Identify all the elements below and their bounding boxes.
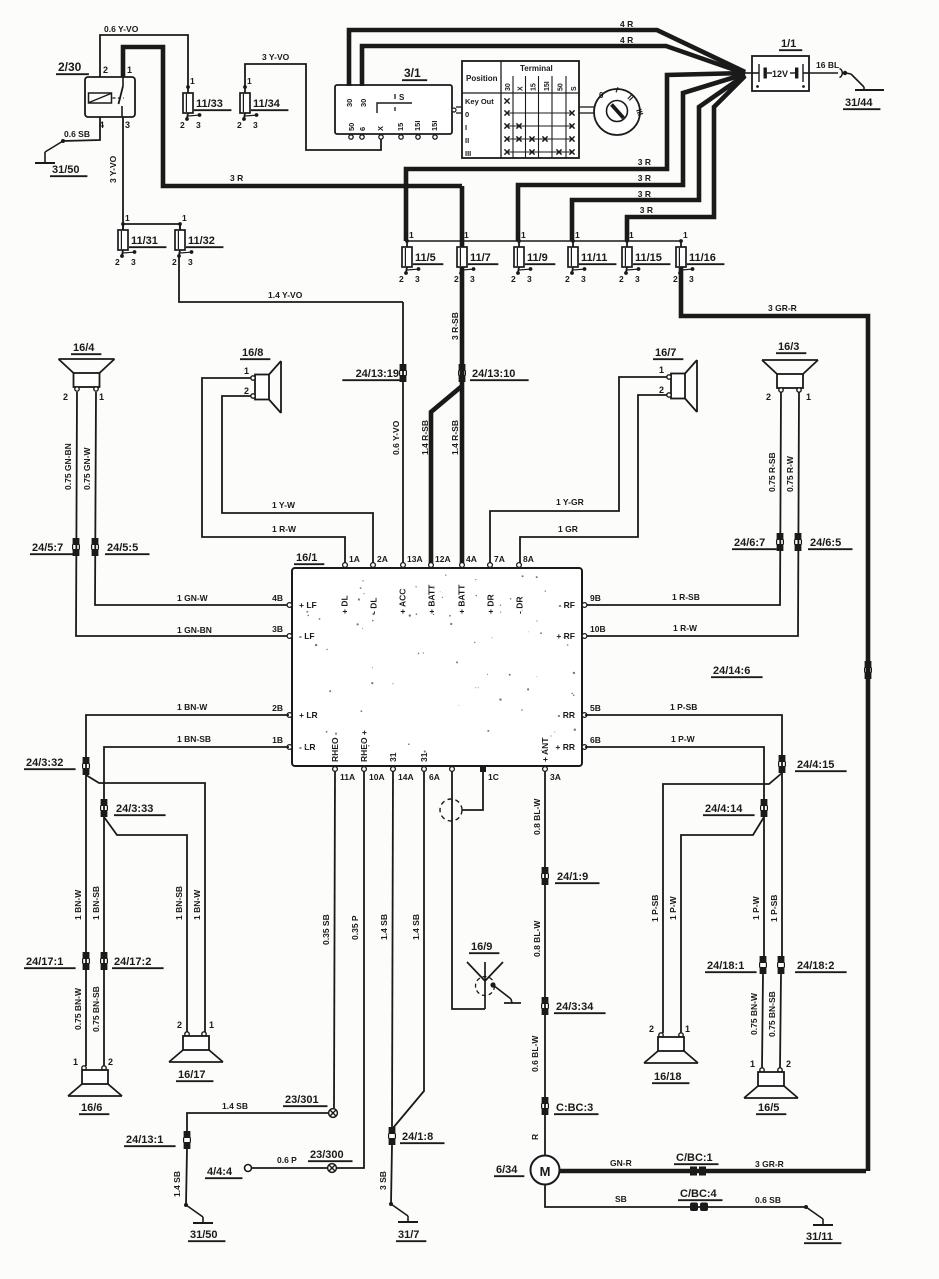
- svg-text:0.75 BN-SB: 0.75 BN-SB: [91, 986, 101, 1032]
- wire 0.75 GN-W / 1 GN-W speaker 16/4 pin1 to radio 4B: [82, 392, 289, 605]
- svg-text:1 P-W: 1 P-W: [671, 734, 696, 744]
- svg-text:2: 2: [115, 257, 120, 267]
- svg-text:11/31: 11/31: [131, 235, 158, 247]
- svg-text:2: 2: [659, 385, 664, 395]
- svg-text:30: 30: [345, 99, 354, 107]
- svg-text:11/33: 11/33: [196, 98, 223, 110]
- svg-text:24/6:7: 24/6:7: [734, 537, 765, 549]
- svg-text:1 BN-SB: 1 BN-SB: [174, 886, 184, 920]
- wire 1 GR speaker 16/7 pin2 to radio 8A: [520, 395, 667, 563]
- svg-text:11/16: 11/16: [689, 252, 716, 264]
- svg-text:2: 2: [399, 274, 404, 284]
- svg-text:14A: 14A: [398, 772, 414, 782]
- svg-text:16/5: 16/5: [758, 1102, 779, 1114]
- svg-text:15: 15: [396, 123, 405, 131]
- svg-text:2: 2: [108, 1057, 113, 1067]
- radio right pins 9B 10B 5B 6B: [555, 593, 605, 752]
- node dashed circle at 1C join: [440, 799, 462, 821]
- wire relay feed down to fuse 11/7: [460, 186, 465, 247]
- svg-text:3: 3: [131, 257, 136, 267]
- svg-text:1.4 SB: 1.4 SB: [172, 1171, 182, 1197]
- wire 0.75 BN-W to speaker 16/5 pin1: [749, 974, 763, 1068]
- svg-text:3 R: 3 R: [230, 173, 243, 183]
- svg-text:24/5:7: 24/5:7: [32, 542, 63, 554]
- wire 0.35 P radio 10A to junction 23/300: [337, 771, 364, 1168]
- svg-text:10A: 10A: [369, 772, 385, 782]
- svg-text:24/18:1: 24/18:1: [707, 960, 744, 972]
- svg-text:15: 15: [531, 83, 538, 91]
- fuse 11/34: [237, 76, 288, 130]
- svg-text:30: 30: [359, 99, 368, 107]
- svg-text:31/44: 31/44: [845, 97, 873, 109]
- svg-text:4A: 4A: [466, 554, 477, 564]
- wire branch 1 BN-SB to speaker 16/17 pin2: [104, 817, 187, 1032]
- svg-text:31/7: 31/7: [398, 1229, 419, 1241]
- battery 1/1: [745, 38, 809, 91]
- svg-text:1.4 R-SB: 1.4 R-SB: [450, 420, 460, 455]
- svg-text:6A: 6A: [429, 772, 440, 782]
- svg-text:2: 2: [766, 392, 771, 402]
- antenna 16/9: [467, 941, 521, 1009]
- svg-text:0: 0: [465, 110, 469, 119]
- svg-text:1: 1: [659, 365, 664, 375]
- svg-text:31: 31: [419, 752, 429, 762]
- svg-text:3: 3: [188, 257, 193, 267]
- svg-text:6: 6: [358, 127, 367, 131]
- wire relay pin2 to fuse 11/33 (0.6 Y-VO): [100, 24, 188, 87]
- wire radio antenna output to antenna 16/9: [452, 771, 485, 1009]
- svg-text:0.6 Y-VO: 0.6 Y-VO: [391, 420, 401, 455]
- svg-text:0.6 SB: 0.6 SB: [64, 129, 90, 139]
- svg-text:3 R: 3 R: [638, 157, 651, 167]
- svg-text:16/1: 16/1: [296, 552, 317, 564]
- svg-text:9B: 9B: [590, 593, 601, 603]
- svg-text:24/3:33: 24/3:33: [116, 803, 153, 815]
- svg-text:1: 1: [125, 213, 130, 223]
- svg-text:GN-R: GN-R: [610, 1158, 632, 1168]
- svg-text:24/18:2: 24/18:2: [797, 960, 834, 972]
- svg-text:3 R-SB: 3 R-SB: [450, 312, 460, 340]
- wire 4 R battery to ignition 30 (lower): [362, 35, 745, 86]
- svg-text:1.4 SB: 1.4 SB: [379, 914, 389, 940]
- speaker 16/6: [68, 1057, 122, 1114]
- speaker 16/5: [744, 1059, 798, 1114]
- svg-text:0.35 P: 0.35 P: [350, 915, 360, 940]
- wire 4 R battery to ignition 30 (upper): [349, 19, 745, 86]
- wire 1 BN-SB radio 1B to 24/3:33 and speakers: [91, 734, 289, 1066]
- fuse 11/5: [399, 230, 443, 284]
- svg-text:1 P-SB: 1 P-SB: [650, 895, 660, 922]
- svg-text:24/4:14: 24/4:14: [705, 803, 743, 815]
- svg-text:4/4:4: 4/4:4: [207, 1166, 233, 1178]
- wire 0.75 GN-BN / 1 GN-BN speaker 16/4 pin2 to radio 3B: [63, 392, 289, 636]
- svg-text:2: 2: [619, 274, 624, 284]
- svg-text:III: III: [465, 149, 471, 158]
- svg-text:11/9: 11/9: [527, 252, 548, 264]
- svg-text:3: 3: [470, 274, 475, 284]
- svg-text:24/5:5: 24/5:5: [107, 542, 138, 554]
- connector 24/13:19: [342, 364, 406, 382]
- svg-text:C:BC:3: C:BC:3: [556, 1102, 593, 1114]
- svg-text:- RR: - RR: [558, 710, 575, 720]
- svg-text:1 Y-W: 1 Y-W: [272, 500, 296, 510]
- junction 23/300: [308, 1149, 353, 1172]
- wire 1.4 R-SB branch to radio 12A: [420, 386, 462, 563]
- fuse 11/9: [511, 230, 555, 284]
- svg-text:11/15: 11/15: [635, 252, 662, 264]
- svg-text:2: 2: [172, 257, 177, 267]
- svg-text:24/17:2: 24/17:2: [114, 956, 151, 968]
- svg-text:2: 2: [649, 1024, 654, 1034]
- speaker 16/4: [59, 342, 115, 402]
- svg-text:- LF: - LF: [299, 631, 315, 641]
- wire 3 R battery to fuse 11/5: [406, 73, 745, 241]
- svg-text:1.4 SB: 1.4 SB: [411, 914, 421, 940]
- svg-text:0.75 R-W: 0.75 R-W: [785, 455, 795, 492]
- svg-text:+ ACC: + ACC: [398, 589, 408, 614]
- svg-text:16/7: 16/7: [655, 347, 676, 359]
- svg-text:16/6: 16/6: [81, 1102, 102, 1114]
- svg-text:0.75 BN-SB: 0.75 BN-SB: [767, 991, 777, 1037]
- svg-text:3 R: 3 R: [640, 205, 653, 215]
- svg-text:3: 3: [527, 274, 532, 284]
- wire 1 R-W speaker 16/8 pin1 to radio 1A: [202, 378, 345, 563]
- svg-text:RHEO +: RHEO +: [359, 730, 369, 762]
- wire 3 GR-R fuse 11/16 down right side: [681, 267, 868, 1171]
- svg-text:+ BATT: + BATT: [457, 584, 467, 614]
- svg-text:3: 3: [253, 120, 258, 130]
- svg-text:1 GN-BN: 1 GN-BN: [177, 625, 212, 635]
- svg-text:C/BC:1: C/BC:1: [676, 1152, 713, 1164]
- wire 0.35 SB radio 11A to junction 23/301: [321, 771, 335, 1108]
- wire 1.4 SB to ground: [172, 1149, 187, 1205]
- svg-text:1 R-SB: 1 R-SB: [672, 592, 700, 602]
- svg-text:1: 1: [575, 230, 580, 240]
- connector C:BC:3: [542, 1097, 599, 1115]
- wire 3 R battery to fuse 11/15: [627, 76, 745, 241]
- speaker 16/18: [644, 1024, 698, 1083]
- svg-text:I: I: [465, 123, 467, 132]
- svg-text:2: 2: [244, 386, 249, 396]
- speaker 16/8: [240, 347, 281, 413]
- svg-text:2/30: 2/30: [58, 60, 82, 74]
- svg-text:11/11: 11/11: [581, 252, 607, 264]
- ground 31/7: [389, 1202, 426, 1241]
- svg-text:3: 3: [635, 274, 640, 284]
- wire fuse top rail: [407, 240, 681, 242]
- svg-text:1: 1: [464, 230, 469, 240]
- svg-text:3 GR-R: 3 GR-R: [755, 1159, 784, 1169]
- wire 1.4 SB junction to connector 24/13:1: [187, 1101, 328, 1131]
- svg-text:+ RR: + RR: [555, 742, 575, 752]
- svg-text:4 R: 4 R: [620, 35, 633, 45]
- wire 3 SB to ground: [378, 1145, 392, 1204]
- svg-text:3: 3: [689, 274, 694, 284]
- connector 24/17:1: [24, 952, 89, 970]
- wire 1 BN-W radio 2B to 24/3:32 and speakers: [73, 702, 289, 1066]
- svg-text:5B: 5B: [590, 703, 601, 713]
- wire 0.75 BN-SB to speaker 16/5 pin2: [767, 974, 781, 1068]
- svg-text:Key Out: Key Out: [465, 97, 494, 106]
- radio bottom pins 11A 10A 14A 6A 1C 3A: [330, 730, 561, 782]
- svg-text:RHEO -: RHEO -: [330, 732, 340, 762]
- ground 31/44: [843, 74, 884, 109]
- wire branch 1 P-SB to speaker 16/18 pin2: [650, 773, 782, 1033]
- speaker 16/3: [762, 341, 818, 402]
- connector 24/17:2: [101, 952, 164, 970]
- svg-text:8A: 8A: [523, 554, 534, 564]
- svg-text:11/7: 11/7: [470, 252, 491, 264]
- svg-text:16/17: 16/17: [178, 1069, 206, 1081]
- svg-text:R: R: [530, 1134, 540, 1140]
- svg-text:1 BN-W: 1 BN-W: [177, 702, 208, 712]
- svg-text:11A: 11A: [340, 772, 355, 782]
- fuse 11/33: [180, 76, 231, 130]
- svg-text:2: 2: [565, 274, 570, 284]
- wire 16 BL battery to ground: [809, 60, 851, 78]
- svg-text:0.75 GN-W: 0.75 GN-W: [82, 447, 92, 490]
- svg-text:31/11: 31/11: [806, 1231, 833, 1243]
- wire 3 R battery to fuse 11/9: [518, 74, 745, 241]
- fuse 11/31: [115, 213, 166, 267]
- svg-text:1 P-SB: 1 P-SB: [670, 702, 697, 712]
- wire relay pin3 3 Y-VO down to fuses 11/31 11/32: [108, 117, 180, 230]
- svg-text:12A: 12A: [435, 554, 451, 564]
- svg-text:1: 1: [629, 230, 634, 240]
- svg-text:1.4 SB: 1.4 SB: [222, 1101, 248, 1111]
- svg-text:24/13:10: 24/13:10: [472, 368, 515, 380]
- svg-text:1: 1: [190, 76, 195, 86]
- ground 31/50 top: [35, 139, 87, 176]
- svg-text:1 GN-W: 1 GN-W: [177, 593, 209, 603]
- connector C/BC:1: [674, 1152, 719, 1176]
- svg-text:1: 1: [409, 230, 414, 240]
- connector 24/14:6: [711, 661, 871, 679]
- svg-text:50: 50: [347, 123, 356, 131]
- svg-text:16/8: 16/8: [242, 347, 263, 359]
- svg-text:1 P-W: 1 P-W: [668, 895, 678, 920]
- svg-text:3 R: 3 R: [638, 189, 651, 199]
- connector 24/4:14: [703, 799, 767, 817]
- svg-text:16/3: 16/3: [778, 341, 799, 353]
- svg-text:0.75 BN-W: 0.75 BN-W: [73, 987, 83, 1030]
- svg-text:24/3:32: 24/3:32: [26, 757, 63, 769]
- svg-text:10B: 10B: [590, 624, 606, 634]
- connector 24/5:5: [92, 538, 150, 556]
- svg-text:- DL: - DL: [369, 597, 379, 614]
- svg-text:1 GR: 1 GR: [558, 524, 578, 534]
- wire 1.4 Y-VO from 11/32 to radio 13A riser: [179, 256, 403, 302]
- svg-text:2B: 2B: [272, 703, 283, 713]
- ignition position/terminal table: [462, 61, 594, 158]
- svg-text:11/32: 11/32: [188, 235, 215, 247]
- relay 2/30: [56, 60, 135, 130]
- svg-text:3B: 3B: [272, 624, 283, 634]
- svg-text:0.6 P: 0.6 P: [277, 1155, 297, 1165]
- connector 24/3:33: [101, 799, 166, 817]
- fuse 11/7: [454, 230, 498, 284]
- connector 24/1:8: [389, 1127, 445, 1145]
- radio top pins 1A 2A 13A 12A 4A 7A 8A: [340, 554, 534, 614]
- wire 3 R battery to fuse 11/11: [572, 75, 745, 241]
- svg-text:Terminal: Terminal: [520, 64, 553, 73]
- svg-text:S: S: [571, 86, 578, 91]
- svg-text:12V: 12V: [772, 69, 788, 79]
- svg-text:1 P-SB: 1 P-SB: [769, 895, 779, 922]
- svg-text:1: 1: [209, 1020, 214, 1030]
- svg-text:+ ANT: + ANT: [540, 737, 550, 762]
- svg-text:2: 2: [180, 120, 185, 130]
- fuse 11/32: [172, 213, 223, 267]
- svg-text:1: 1: [683, 230, 688, 240]
- svg-text:3: 3: [196, 120, 201, 130]
- connector 24/18:1: [705, 956, 766, 974]
- svg-text:2: 2: [237, 120, 242, 130]
- svg-text:16/18: 16/18: [654, 1071, 682, 1083]
- svg-text:+ LR: + LR: [299, 710, 318, 720]
- radio unit 16/1: [292, 552, 582, 766]
- ground 31/11: [804, 1205, 841, 1243]
- svg-text:1: 1: [73, 1057, 78, 1067]
- svg-text:24/14:6: 24/14:6: [713, 665, 750, 677]
- svg-text:3: 3: [125, 120, 130, 130]
- svg-text:1 BN-W: 1 BN-W: [192, 889, 202, 920]
- svg-text:3A: 3A: [550, 772, 561, 782]
- svg-text:16/9: 16/9: [471, 941, 492, 953]
- fuse 11/16: [673, 230, 724, 284]
- svg-text:0.75 R-SB: 0.75 R-SB: [767, 452, 777, 492]
- ground 31/50 bottom: [184, 1203, 225, 1241]
- svg-text:0.75 BN-W: 0.75 BN-W: [749, 992, 759, 1035]
- svg-text:1A: 1A: [349, 554, 360, 564]
- svg-text:7A: 7A: [494, 554, 505, 564]
- svg-text:1.4 R-SB: 1.4 R-SB: [420, 420, 430, 455]
- svg-text:1: 1: [99, 392, 104, 402]
- svg-text:X: X: [518, 86, 525, 91]
- svg-text:24/4:15: 24/4:15: [797, 759, 834, 771]
- svg-text:0.6 SB: 0.6 SB: [755, 1195, 781, 1205]
- svg-text:1B: 1B: [272, 735, 283, 745]
- svg-text:3 R: 3 R: [638, 173, 651, 183]
- connector 24/1:9: [542, 867, 600, 885]
- svg-text:4B: 4B: [272, 593, 283, 603]
- wire 0.75 R-SB / 1 R-SB speaker 16/3 pin2 to radio 9B: [585, 392, 781, 605]
- wire 1 P-W radio 6B to 24/4:14 and speakers: [585, 734, 764, 956]
- svg-text:0.6 BL-W: 0.6 BL-W: [530, 1035, 540, 1072]
- svg-text:X: X: [376, 126, 385, 131]
- connector 4/4:4 and wire 0.6 P: [205, 1155, 328, 1178]
- svg-text:2: 2: [177, 1020, 182, 1030]
- wire 1 Y-GR speaker 16/7 pin1 to radio 7A: [490, 377, 667, 563]
- svg-text:1: 1: [244, 366, 249, 376]
- svg-text:+ BATT: + BATT: [427, 584, 437, 614]
- svg-text:0.6 Y-VO: 0.6 Y-VO: [104, 24, 139, 34]
- ignition switch 3/1: [335, 66, 462, 139]
- svg-text:3: 3: [415, 274, 420, 284]
- ignition key symbol: [594, 85, 645, 135]
- svg-text:4 R: 4 R: [620, 19, 633, 29]
- connector 24/3:34: [542, 997, 606, 1015]
- svg-text:3: 3: [581, 274, 586, 284]
- wire 1 P-SB radio 5B to 24/4:15 and speakers: [585, 702, 782, 956]
- svg-text:+ RF: + RF: [556, 631, 575, 641]
- svg-text:23/301: 23/301: [285, 1094, 319, 1106]
- svg-text:M: M: [540, 1164, 551, 1179]
- svg-text:1 BN-W: 1 BN-W: [73, 889, 83, 920]
- svg-text:2: 2: [673, 274, 678, 284]
- connector 24/6:7: [732, 533, 783, 551]
- svg-text:2A: 2A: [377, 554, 388, 564]
- svg-text:0.35 SB: 0.35 SB: [321, 914, 331, 945]
- antenna motor 6/34: [494, 1156, 560, 1185]
- svg-text:+ LF: + LF: [299, 600, 317, 610]
- radio scan speckles: [304, 574, 576, 752]
- svg-text:15I: 15I: [413, 121, 422, 131]
- svg-text:1: 1: [247, 76, 252, 86]
- svg-text:31/50: 31/50: [190, 1229, 218, 1241]
- fuse 11/11: [565, 230, 616, 284]
- wire 3 R-SB / 1.4 R-SB fuse 11/7 to radio 4A: [450, 267, 462, 563]
- wire 3 Y-VO from 11/34 to ignition switch X terminal: [245, 52, 381, 150]
- wire relay pin4 0.6 SB to ground: [63, 117, 100, 141]
- svg-text:16 BL: 16 BL: [816, 60, 839, 70]
- connector 24/6:5: [795, 533, 853, 551]
- svg-text:- LR: - LR: [299, 742, 316, 752]
- svg-text:1: 1: [750, 1059, 755, 1069]
- svg-text:1 R-W: 1 R-W: [272, 524, 297, 534]
- wire 1 Y-W speaker 16/8 pin2 to radio 2A: [222, 396, 373, 563]
- svg-text:6B: 6B: [590, 735, 601, 745]
- svg-text:11/34: 11/34: [253, 98, 281, 110]
- connector C/BC:4: [678, 1188, 723, 1211]
- svg-text:1 R-W: 1 R-W: [673, 623, 698, 633]
- svg-text:- DR: - DR: [515, 597, 525, 614]
- svg-text:1 BN-SB: 1 BN-SB: [177, 734, 211, 744]
- svg-text:0: 0: [599, 91, 604, 100]
- junction 23/301: [283, 1094, 337, 1117]
- svg-text:15I: 15I: [430, 121, 439, 131]
- connector 24/13:1: [124, 1131, 190, 1149]
- svg-text:+ DR: + DR: [486, 594, 496, 614]
- svg-text:23/300: 23/300: [310, 1149, 344, 1161]
- svg-text:- RF: - RF: [558, 600, 575, 610]
- svg-text:15I: 15I: [544, 81, 551, 91]
- connector 24/4:15: [779, 755, 847, 773]
- svg-text:24/17:1: 24/17:1: [26, 956, 63, 968]
- svg-text:2: 2: [511, 274, 516, 284]
- svg-text:24/6:5: 24/6:5: [810, 537, 841, 549]
- svg-text:3 Y-VO: 3 Y-VO: [108, 155, 118, 183]
- wire GN-R / 3 GR-R motor to right side: [560, 1158, 867, 1171]
- wire 0.6 Y-VO riser to radio 13A: [391, 302, 403, 563]
- svg-text:1C: 1C: [488, 772, 499, 782]
- svg-text:2: 2: [786, 1059, 791, 1069]
- svg-text:SB: SB: [615, 1194, 627, 1204]
- wire 0.75 R-W / 1 R-W speaker 16/3 pin1 to radio 10B: [585, 392, 799, 636]
- svg-text:3 Y-VO: 3 Y-VO: [262, 52, 290, 62]
- svg-text:1 P-W: 1 P-W: [751, 895, 761, 920]
- svg-text:6/34: 6/34: [496, 1164, 518, 1176]
- svg-text:24/3:34: 24/3:34: [556, 1001, 594, 1013]
- svg-text:0.75 GN-BN: 0.75 GN-BN: [63, 443, 73, 490]
- svg-text:Position: Position: [466, 74, 498, 83]
- svg-text:24/13:1: 24/13:1: [126, 1134, 163, 1146]
- svg-text:C/BC:4: C/BC:4: [680, 1188, 718, 1200]
- svg-text:1/1: 1/1: [781, 38, 796, 50]
- wire branch 1 P-W to speaker 16/18 pin1: [668, 817, 764, 1033]
- svg-text:24/1:8: 24/1:8: [402, 1131, 433, 1143]
- svg-text:1: 1: [182, 213, 187, 223]
